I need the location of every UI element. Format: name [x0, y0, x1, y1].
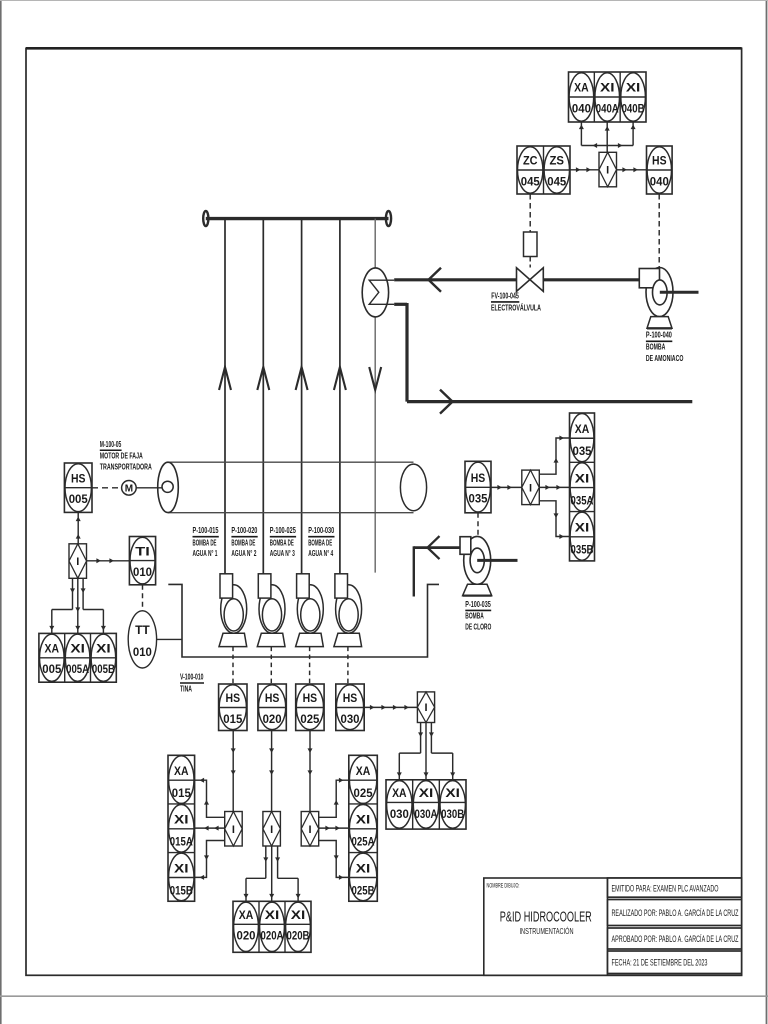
- svg-text:015: 015: [172, 786, 191, 800]
- svg-text:025A: 025A: [352, 835, 375, 849]
- svg-text:XI: XI: [626, 81, 641, 95]
- svg-text:HS: HS: [652, 154, 667, 168]
- title block outline: [484, 878, 742, 975]
- tapping line TT-010 to tub: [157, 638, 182, 640]
- svg-text:015A: 015A: [170, 835, 193, 849]
- title row APROBADO POR: [608, 928, 742, 949]
- shared display XA-015 / XI-015A / XI-015B: [168, 755, 195, 901]
- svg-text:025B: 025B: [352, 883, 375, 897]
- signal line HS-015 to interlock: [232, 731, 234, 812]
- shared display XA-025 / XI-025A / XI-025B: [349, 755, 378, 901]
- svg-text:I: I: [606, 165, 609, 177]
- svg-text:030: 030: [390, 807, 409, 821]
- signal line pump 1 to HS-015: [232, 647, 234, 684]
- svg-text:HS: HS: [265, 691, 280, 705]
- shared display XA-040 / XI-040A / XI-040B: [569, 72, 647, 122]
- interlock I (025 group): [301, 812, 319, 847]
- svg-text:FECHA: 21 DE SETIEMBRE DEL 202: FECHA: 21 DE SETIEMBRE DEL 2023: [612, 958, 708, 968]
- hand switch HS-020: [258, 684, 286, 731]
- header pipe left cap: [203, 211, 208, 226]
- svg-text:REALIZADO POR: PABLO A. GARCÍA: REALIZADO POR: PABLO A. GARCÍA DE LA CRU…: [612, 908, 739, 918]
- interlock I (040 group): [599, 152, 617, 187]
- svg-text:AGUA N° 1: AGUA N° 1: [193, 548, 218, 558]
- riser pipe from pump 2: [262, 219, 264, 574]
- signal line ZC-045 to solenoid: [529, 194, 531, 232]
- svg-text:P&ID HIDROCOOLER: P&ID HIDROCOOLER: [500, 910, 592, 926]
- shared display XA-005 / XI-005A / XI-005B: [39, 633, 116, 682]
- page edge top: [0, 0, 768, 2]
- signal line HS-005 to motor: [92, 487, 122, 489]
- svg-text:XI: XI: [70, 642, 85, 656]
- svg-text:HS: HS: [226, 691, 241, 705]
- svg-text:I: I: [76, 556, 79, 568]
- svg-text:010: 010: [133, 565, 152, 579]
- flow arrow up riser 1: [219, 367, 231, 390]
- signal line HS-020 to interlock: [271, 731, 273, 812]
- svg-text:XA: XA: [574, 81, 589, 95]
- svg-text:XA: XA: [356, 764, 371, 778]
- svg-text:XI: XI: [96, 642, 111, 656]
- signal branches interlock to XA/XI-015: [195, 827, 225, 829]
- title row REALIZADO POR: [608, 900, 742, 926]
- svg-text:035: 035: [469, 492, 488, 506]
- svg-text:035B: 035B: [571, 543, 594, 557]
- svg-text:030A: 030A: [415, 807, 438, 821]
- svg-text:P-100-030: P-100-030: [308, 525, 334, 535]
- interlock I (035 group): [522, 470, 540, 505]
- svg-text:020: 020: [237, 929, 256, 943]
- heat exchanger E (coil cooler): [362, 268, 388, 317]
- page edge right: [766, 0, 768, 1024]
- header pipe: [206, 217, 389, 220]
- svg-text:045: 045: [521, 174, 540, 188]
- header pipe right cap: [386, 211, 391, 226]
- svg-text:BOMBA DE: BOMBA DE: [308, 537, 332, 547]
- signal line interlock to HS-040: [617, 169, 647, 171]
- signal line pump 2 to HS-020: [270, 647, 272, 684]
- svg-text:020A: 020A: [261, 929, 284, 943]
- flow arrow up riser 2: [257, 367, 269, 390]
- svg-text:DE AMONIACO: DE AMONIACO: [646, 353, 684, 363]
- svg-text:TINA: TINA: [180, 684, 192, 694]
- shaft line motor to pulley: [136, 487, 162, 489]
- motor M of conveyor: [122, 481, 137, 496]
- svg-text:AGUA N° 4: AGUA N° 4: [308, 548, 333, 558]
- riser pipe from pump 1: [224, 219, 226, 574]
- interlock I (030 group): [417, 692, 434, 723]
- title row FECHA: [608, 951, 742, 974]
- pump P-100-025 (agua 3): [297, 585, 323, 633]
- svg-text:EMITIDO PARA: EXAMEN PLC AVANZ: EMITIDO PARA: EXAMEN PLC AVANZADO: [612, 884, 719, 894]
- svg-text:NOMBRE DIBUJO:: NOMBRE DIBUJO:: [487, 884, 520, 890]
- interlock I (015 group): [225, 812, 243, 847]
- signal line TT-010 to TI-010: [142, 585, 144, 611]
- svg-text:I: I: [529, 482, 532, 494]
- ammonia return pipe (bottom): [394, 303, 407, 306]
- svg-text:MOTOR DE FAJA: MOTOR DE FAJA: [100, 450, 143, 460]
- svg-text:XI: XI: [419, 786, 434, 800]
- pump P-100-030 (agua 4): [336, 585, 362, 633]
- signal line HS-025 to interlock: [309, 731, 311, 812]
- svg-text:INSTRUMENTACIÓN: INSTRUMENTACIÓN: [520, 926, 574, 936]
- interlock I (020 group): [263, 812, 281, 847]
- hand switch HS-035: [465, 461, 491, 513]
- svg-text:DE CLORO: DE CLORO: [465, 622, 491, 632]
- svg-text:P-100-020: P-100-020: [231, 525, 257, 535]
- flow arrow left on supply pipe: [429, 268, 442, 292]
- svg-text:TRANSPORTADORA: TRANSPORTADORA: [100, 461, 152, 471]
- svg-text:XI: XI: [600, 81, 615, 95]
- pump P-100-035 suction line: [414, 546, 460, 549]
- riser pipe from pump 4: [339, 219, 341, 574]
- signal line HS-035 to pump P-100-035: [477, 513, 479, 537]
- svg-text:FV-100-045: FV-100-045: [491, 290, 519, 300]
- flow arrow left on suction: [428, 536, 440, 559]
- signal line interlock to TI-010: [87, 560, 130, 562]
- temperature indicator TI-010: [129, 537, 155, 585]
- svg-text:ZS: ZS: [550, 154, 565, 168]
- ammonia supply pipe (top): [394, 278, 516, 281]
- svg-text:040: 040: [650, 174, 669, 188]
- svg-text:XI: XI: [356, 861, 371, 875]
- svg-text:HS: HS: [343, 691, 358, 705]
- svg-text:015: 015: [223, 712, 242, 726]
- signal line interlock to HS-005: [77, 512, 79, 543]
- svg-text:V-100-010: V-100-010: [180, 672, 204, 682]
- hand switch HS-030: [336, 684, 364, 731]
- pump P-100-035 (cloro): [464, 536, 491, 584]
- shared display XA-030 / XI-030A / XI-030B: [386, 780, 466, 829]
- hand switch HS-015: [219, 684, 247, 731]
- hand switch HS-005: [64, 463, 92, 512]
- svg-text:I: I: [308, 824, 311, 836]
- svg-text:TI: TI: [135, 544, 150, 558]
- signal branches interlock to XA/XI-035: [540, 486, 570, 488]
- svg-text:ZC: ZC: [523, 154, 538, 168]
- svg-text:035: 035: [573, 444, 592, 458]
- svg-text:XI: XI: [575, 471, 590, 485]
- flow arrow up riser 3: [296, 367, 308, 390]
- svg-text:025: 025: [354, 786, 373, 800]
- svg-text:TT: TT: [135, 623, 150, 637]
- shared display XA-035 / XI-035A / XI-035B: [570, 413, 595, 561]
- svg-text:XA: XA: [174, 764, 189, 778]
- svg-text:P-100-025: P-100-025: [270, 525, 296, 535]
- svg-text:XA: XA: [45, 642, 60, 656]
- svg-text:HS: HS: [303, 691, 318, 705]
- flow arrow up riser 4: [334, 367, 346, 390]
- svg-text:005: 005: [69, 492, 88, 506]
- svg-text:045: 045: [547, 174, 566, 188]
- riser pipe from pump 3: [301, 219, 303, 574]
- svg-text:XI: XI: [445, 786, 460, 800]
- svg-text:015B: 015B: [170, 883, 193, 897]
- valve FV-100-045 body: [517, 268, 530, 292]
- trough outline (tina): [168, 584, 439, 657]
- valve solenoid actuator: [524, 232, 538, 257]
- svg-text:P-100-035: P-100-035: [465, 599, 491, 609]
- tub V-100-010 drum body: [168, 461, 414, 463]
- signal line solenoid to valve: [529, 257, 531, 268]
- svg-text:I: I: [232, 824, 235, 836]
- drum right end: [400, 464, 426, 511]
- svg-text:BOMBA: BOMBA: [646, 342, 666, 352]
- svg-text:HS: HS: [71, 471, 86, 485]
- signal line HS-035 to interlock: [491, 486, 521, 488]
- signal branches interlock to XA/XI-040: [580, 122, 582, 146]
- shared instrument ZC-045 / ZS-045: [517, 146, 570, 194]
- svg-text:XI: XI: [356, 813, 371, 827]
- svg-text:XI: XI: [265, 908, 280, 922]
- hand switch HS-040: [647, 146, 673, 194]
- svg-text:M-100-05: M-100-05: [100, 439, 122, 449]
- title row EMITIDO PARA: [608, 878, 742, 897]
- signal branches interlock to XA/XI-025: [319, 827, 349, 829]
- pump P-100-020 (agua 2): [259, 585, 285, 633]
- svg-text:AGUA N° 2: AGUA N° 2: [231, 548, 256, 558]
- svg-text:P-100-040: P-100-040: [646, 330, 672, 340]
- signal branches interlock to XA/XI-020: [265, 846, 267, 878]
- page edge left: [0, 0, 2, 1024]
- svg-text:040B: 040B: [622, 101, 645, 115]
- flow arrow right on return pipe: [440, 390, 453, 414]
- svg-text:AGUA N° 3: AGUA N° 3: [270, 548, 295, 558]
- signal line HS-040 to pump P-100-040: [658, 194, 660, 268]
- svg-text:BOMBA: BOMBA: [465, 611, 484, 621]
- hand switch HS-025: [296, 684, 324, 731]
- svg-text:010: 010: [133, 645, 152, 659]
- svg-text:M: M: [125, 483, 133, 494]
- drum left end / drive pulley: [158, 462, 179, 512]
- temperature transmitter TT-010: [128, 611, 156, 668]
- svg-text:XA: XA: [392, 786, 407, 800]
- signal line ZS-045 to interlock: [570, 169, 599, 171]
- flow arrow down on downcomer: [369, 367, 381, 390]
- pump P-100-040 discharge line: [660, 291, 699, 294]
- svg-text:XI: XI: [291, 908, 306, 922]
- svg-text:XI: XI: [174, 861, 189, 875]
- svg-text:020: 020: [263, 712, 282, 726]
- svg-text:ELECTROVÁLVULA: ELECTROVÁLVULA: [491, 302, 541, 312]
- svg-text:040A: 040A: [596, 101, 619, 115]
- svg-text:XA: XA: [575, 422, 590, 436]
- pump P-100-040 (ammonia): [646, 268, 673, 317]
- signal line HS-030 to interlock: [364, 706, 418, 708]
- svg-text:APROBADO POR: PABLO A. GARCÍA: APROBADO POR: PABLO A. GARCÍA DE LA CRUZ: [612, 934, 739, 944]
- pump P-100-035 discharge line: [477, 559, 517, 562]
- signal line pump 3 to HS-025: [309, 647, 311, 684]
- svg-text:020B: 020B: [287, 929, 310, 943]
- svg-text:025: 025: [300, 712, 319, 726]
- svg-text:005: 005: [42, 662, 61, 676]
- svg-text:I: I: [270, 824, 273, 836]
- pump P-100-015 (agua 1): [221, 585, 247, 633]
- svg-text:005A: 005A: [66, 662, 89, 676]
- signal branches interlock to XA/XI-030: [420, 723, 422, 754]
- svg-text:035A: 035A: [571, 493, 594, 507]
- interlock I (005 group): [69, 544, 87, 579]
- svg-text:XI: XI: [174, 813, 189, 827]
- signal branches interlock to XA/XI-005: [72, 578, 74, 609]
- page edge bottom: [0, 995, 768, 997]
- svg-text:BOMBA DE: BOMBA DE: [231, 537, 255, 547]
- svg-text:BOMBA DE: BOMBA DE: [193, 537, 217, 547]
- svg-text:030B: 030B: [441, 807, 464, 821]
- downcomer pipe to heat exchanger: [374, 219, 376, 269]
- svg-text:I: I: [424, 702, 427, 714]
- svg-text:BOMBA DE: BOMBA DE: [270, 537, 294, 547]
- svg-text:P-100-015: P-100-015: [193, 525, 219, 535]
- signal line pump 4 to HS-030: [347, 647, 349, 684]
- svg-text:005B: 005B: [92, 662, 115, 676]
- svg-text:XA: XA: [239, 908, 254, 922]
- shared display XA-020 / XI-020A / XI-020B: [233, 901, 311, 952]
- svg-text:XI: XI: [575, 521, 590, 535]
- svg-text:HS: HS: [471, 471, 486, 485]
- svg-text:030: 030: [341, 712, 360, 726]
- svg-text:040: 040: [572, 101, 591, 115]
